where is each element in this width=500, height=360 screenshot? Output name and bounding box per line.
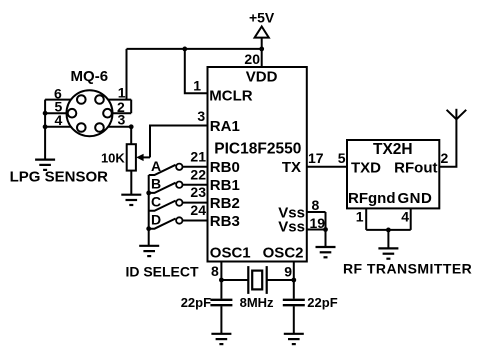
wire MQ-6 left ground bus bbox=[44, 100, 46, 159]
wire MQ-6 pin 4 bbox=[45, 126, 71, 128]
svg-text:Vss: Vss bbox=[278, 219, 305, 236]
node junction pin3/pot bbox=[129, 124, 134, 129]
svg-text:24: 24 bbox=[190, 202, 206, 218]
switch D stub bbox=[149, 219, 176, 229]
svg-text:GND: GND bbox=[398, 190, 433, 207]
ground ID select bbox=[139, 246, 159, 256]
pot wiper arrow bbox=[143, 156, 151, 158]
wire C1 to ground bbox=[220, 306, 222, 334]
svg-text:MQ-6: MQ-6 bbox=[71, 68, 109, 85]
wire switch D to RB3 bbox=[183, 220, 208, 222]
wire RFgnd stub bbox=[365, 208, 367, 230]
svg-text:RB2: RB2 bbox=[210, 195, 240, 212]
svg-text:C: C bbox=[151, 194, 161, 210]
wire crystal right bbox=[267, 279, 294, 281]
MQ-6 pin circle top-left bbox=[77, 95, 86, 104]
node junction OSC2/crystal bbox=[291, 278, 296, 283]
switch A stub bbox=[149, 165, 176, 175]
power +5V arrow symbol bbox=[255, 27, 269, 38]
wire pot wiper to RA1 bbox=[150, 126, 208, 158]
wire TX to TXD bbox=[307, 166, 347, 168]
wire MQ-6 pin 5 bbox=[45, 112, 67, 114]
node junction pin4/bus bbox=[43, 124, 48, 129]
crystal X1 plates bbox=[247, 266, 249, 294]
wire Vss pin 8 bbox=[307, 211, 326, 213]
wire switch A to RB0 bbox=[183, 166, 208, 168]
wire switch C to RB2 bbox=[183, 202, 208, 204]
node junction bus/D bbox=[146, 226, 151, 231]
ground pot bbox=[121, 195, 141, 205]
wire RFout to antenna bbox=[439, 119, 456, 167]
switch B stub bbox=[149, 183, 176, 193]
wire bracket pin1-pin2 bbox=[130, 100, 132, 114]
svg-text:1: 1 bbox=[356, 208, 364, 224]
node junction OSC1/crystal bbox=[219, 278, 224, 283]
svg-text:D: D bbox=[151, 212, 161, 228]
wire pot bottom to ground bbox=[130, 171, 132, 195]
MQ-6 pin circle bottom-right bbox=[95, 123, 104, 132]
svg-text:17: 17 bbox=[308, 150, 324, 166]
wire C2 to ground bbox=[293, 306, 295, 334]
RF module TX2H box bbox=[347, 140, 439, 208]
svg-text:RFout: RFout bbox=[394, 159, 437, 176]
svg-text:19: 19 bbox=[310, 215, 326, 231]
svg-text:5: 5 bbox=[338, 150, 346, 166]
wire crystal left bbox=[221, 279, 248, 281]
wire MCLR drop bbox=[185, 49, 208, 93]
svg-text:LPG SENSOR: LPG SENSOR bbox=[10, 168, 109, 185]
wire pin3 to pot bbox=[130, 127, 132, 144]
svg-text:ID SELECT: ID SELECT bbox=[125, 264, 199, 280]
wire gnd join bbox=[366, 229, 411, 231]
node junction bus/B bbox=[146, 191, 151, 196]
wire top rail bbox=[127, 48, 262, 50]
wire MQ-6 pin 6 bbox=[45, 99, 71, 101]
ground LPG sensor bbox=[35, 160, 55, 170]
svg-text:TX: TX bbox=[282, 159, 301, 176]
svg-text:OSC2: OSC2 bbox=[263, 245, 304, 262]
wire switch B to RB1 bbox=[183, 184, 208, 186]
wire rail to MQ-6 pin1 bbox=[126, 49, 128, 100]
node junction rail/MCLR bbox=[182, 47, 187, 52]
switch C contact circle bbox=[176, 199, 182, 205]
svg-text:RA1: RA1 bbox=[210, 118, 240, 135]
op IC U1 PIC18F2550 box bbox=[208, 67, 307, 262]
svg-text:4: 4 bbox=[55, 112, 63, 128]
ground Vss bbox=[316, 247, 336, 257]
MQ-6 pin circle top-right bbox=[95, 95, 104, 104]
node junction Vss bbox=[323, 227, 328, 232]
svg-text:23: 23 bbox=[190, 184, 206, 200]
svg-text:22pF: 22pF bbox=[181, 295, 211, 310]
switch C stub bbox=[149, 201, 176, 211]
svg-text:MCLR: MCLR bbox=[209, 88, 252, 105]
wire MQ-6 pin 3 bbox=[109, 126, 132, 128]
svg-text:VDD: VDD bbox=[246, 68, 278, 85]
svg-text:8: 8 bbox=[211, 263, 219, 279]
svg-text:21: 21 bbox=[190, 148, 206, 164]
wire Vss pin 19 bbox=[307, 229, 326, 231]
svg-text:TX2H: TX2H bbox=[373, 141, 413, 158]
wire OSC2 bbox=[293, 262, 295, 299]
svg-text:OSC1: OSC1 bbox=[210, 245, 251, 262]
MQ-6 pin circle mid-left bbox=[68, 109, 77, 118]
svg-text:RB0: RB0 bbox=[210, 159, 240, 176]
svg-text:A: A bbox=[151, 158, 161, 174]
svg-text:RF TRANSMITTER: RF TRANSMITTER bbox=[343, 260, 472, 276]
svg-text:+5V: +5V bbox=[249, 9, 275, 25]
wire to TX2H ground bbox=[387, 230, 389, 249]
switch A contact circle bbox=[176, 164, 182, 170]
svg-text:RB3: RB3 bbox=[210, 213, 240, 230]
svg-text:3: 3 bbox=[197, 108, 205, 124]
MQ-6 pin circle bottom-left bbox=[77, 123, 86, 132]
wire GND stub bbox=[410, 208, 412, 230]
ground TX2H bbox=[378, 248, 398, 258]
svg-text:B: B bbox=[151, 176, 161, 192]
svg-text:8: 8 bbox=[312, 197, 320, 213]
switch D contact circle bbox=[176, 217, 182, 223]
switch B contact circle bbox=[176, 182, 182, 188]
crystal X1 body bbox=[252, 271, 262, 290]
svg-text:2: 2 bbox=[441, 150, 449, 166]
wire Vss vertical bbox=[325, 212, 327, 247]
node junction gnd bbox=[386, 228, 391, 233]
svg-text:9: 9 bbox=[284, 264, 292, 280]
wire +5V stem to VDD pin 20 bbox=[261, 38, 263, 67]
svg-text:1: 1 bbox=[118, 84, 126, 100]
wire MQ-6 pin 1 bbox=[109, 99, 132, 101]
resistor pot 10K body bbox=[127, 144, 136, 170]
svg-text:TXD: TXD bbox=[351, 159, 381, 176]
svg-text:1: 1 bbox=[193, 78, 201, 94]
capacitor C1 plates bbox=[210, 299, 232, 301]
wire MQ-6 pin 2 bbox=[112, 112, 131, 114]
ground C1 bbox=[211, 334, 231, 344]
MQ-6 pin circle mid-right bbox=[103, 109, 112, 118]
svg-text:22pF: 22pF bbox=[307, 295, 337, 310]
node junction rail/VDD bbox=[259, 47, 264, 52]
wire OSC1 bbox=[220, 262, 222, 299]
svg-text:10K: 10K bbox=[101, 151, 125, 166]
svg-text:RFgnd: RFgnd bbox=[348, 190, 395, 207]
antenna bbox=[447, 109, 467, 120]
capacitor C2 plates bbox=[283, 299, 305, 301]
ground C2 bbox=[284, 334, 304, 344]
node junction pin5/bus bbox=[43, 111, 48, 116]
svg-text:20: 20 bbox=[244, 51, 260, 67]
wire ID select bus bbox=[148, 175, 150, 246]
svg-text:PIC18F2550: PIC18F2550 bbox=[214, 141, 301, 158]
svg-text:22: 22 bbox=[190, 166, 206, 182]
svg-text:4: 4 bbox=[401, 208, 409, 224]
svg-text:8MHz: 8MHz bbox=[240, 295, 274, 310]
sensor MQ-6 body circle bbox=[67, 90, 113, 136]
svg-text:RB1: RB1 bbox=[210, 177, 240, 194]
